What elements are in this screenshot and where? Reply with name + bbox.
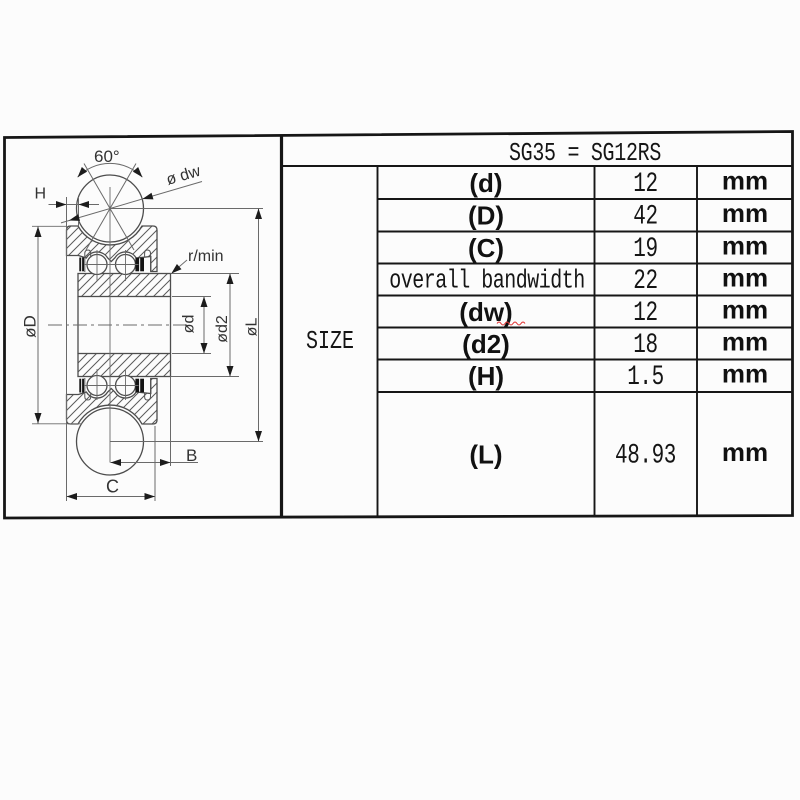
svg-text:(L): (L)	[469, 439, 502, 469]
svg-text:r/min: r/min	[188, 248, 224, 265]
svg-text:19: 19	[633, 235, 657, 265]
svg-text:øL: øL	[244, 318, 261, 337]
svg-text:12: 12	[633, 170, 657, 200]
svg-text:mm: mm	[722, 198, 768, 228]
svg-text:B: B	[186, 446, 197, 465]
svg-text:(d2): (d2)	[462, 329, 510, 359]
svg-text:øD: øD	[21, 315, 40, 338]
svg-text:mm: mm	[722, 262, 768, 292]
svg-text:60°: 60°	[94, 147, 120, 166]
svg-text:(C): (C)	[468, 233, 504, 263]
svg-text:18: 18	[633, 331, 657, 361]
svg-text:mm: mm	[722, 230, 768, 260]
svg-text:overall bandwidth: overall bandwidth	[389, 266, 584, 295]
svg-text:mm: mm	[722, 359, 768, 389]
svg-text:22: 22	[633, 267, 657, 297]
svg-text:C: C	[106, 477, 119, 497]
svg-text:mm: mm	[722, 326, 768, 356]
svg-text:48.93: 48.93	[615, 441, 676, 471]
svg-text:1.5: 1.5	[627, 363, 664, 393]
svg-text:SG35 = SG12RS: SG35 = SG12RS	[509, 139, 661, 168]
svg-text:H: H	[35, 186, 47, 203]
svg-text:mm: mm	[722, 294, 768, 324]
svg-text:(D): (D)	[468, 201, 504, 231]
svg-text:SIZE: SIZE	[306, 327, 354, 356]
svg-text:12: 12	[633, 299, 657, 329]
svg-text:mm: mm	[722, 437, 768, 467]
svg-text:ød: ød	[181, 315, 198, 334]
svg-text:(d): (d)	[469, 168, 502, 198]
svg-text:mm: mm	[722, 165, 768, 195]
svg-text:ød2: ød2	[214, 315, 231, 343]
svg-text:(dw): (dw)	[459, 297, 512, 327]
svg-text:(H): (H)	[468, 361, 504, 391]
svg-text:42: 42	[633, 202, 657, 232]
